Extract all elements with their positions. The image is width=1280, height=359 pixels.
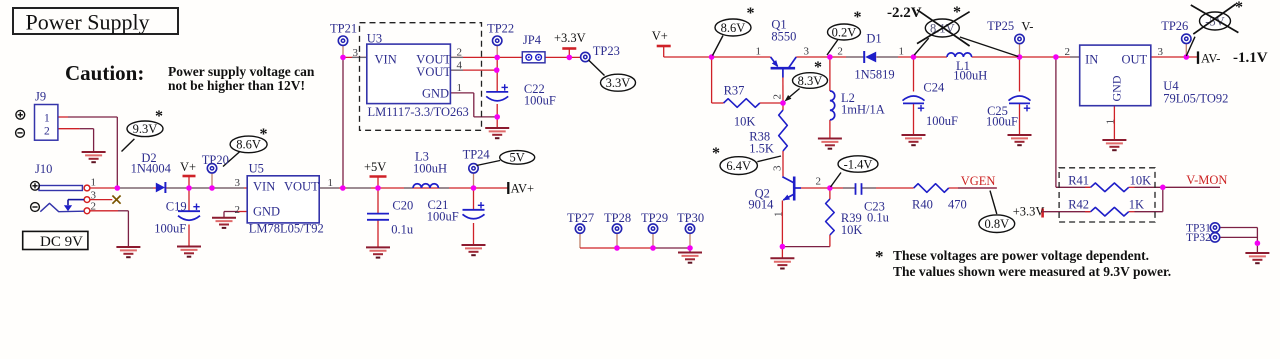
svg-text:TP20: TP20 (202, 153, 229, 167)
svg-text:TP23: TP23 (593, 44, 620, 58)
svg-text:TP32: TP32 (1186, 232, 1211, 244)
svg-text:2: 2 (235, 204, 241, 216)
svg-text:5V: 5V (510, 151, 525, 165)
svg-text:*: * (875, 247, 884, 266)
svg-text:+3.3V: +3.3V (554, 31, 586, 45)
svg-text:J10: J10 (35, 162, 52, 176)
svg-text:IN: IN (1085, 53, 1098, 67)
svg-text:*: * (814, 59, 822, 76)
svg-text:-1.1V: -1.1V (1233, 50, 1268, 66)
svg-text:2: 2 (457, 47, 463, 59)
svg-text:TP27: TP27 (567, 211, 594, 225)
svg-text:2: 2 (837, 46, 843, 58)
svg-text:1: 1 (457, 82, 463, 94)
svg-text:1K: 1K (1129, 198, 1144, 212)
svg-text:LM1117-3.3/TO263: LM1117-3.3/TO263 (368, 105, 469, 119)
svg-text:VGEN: VGEN (961, 174, 996, 188)
svg-text:R41: R41 (1068, 173, 1089, 187)
svg-text:OUT: OUT (1122, 53, 1148, 67)
svg-text:*: * (712, 145, 720, 162)
svg-text:LM78L05/T92: LM78L05/T92 (249, 222, 324, 236)
svg-text:1.5K: 1.5K (749, 142, 774, 156)
svg-text:VIN: VIN (375, 52, 397, 66)
svg-text:100uF: 100uF (926, 114, 958, 128)
svg-text:V+: V+ (652, 29, 668, 43)
svg-text:DC 9V: DC 9V (40, 234, 83, 250)
svg-text:1: 1 (899, 46, 905, 58)
svg-text:1: 1 (773, 212, 785, 218)
svg-text:3: 3 (772, 165, 784, 171)
svg-text:1N5819: 1N5819 (854, 68, 894, 82)
svg-text:*: * (953, 4, 961, 21)
svg-text:+3.3V: +3.3V (1013, 205, 1045, 219)
svg-text:9014: 9014 (748, 198, 774, 212)
svg-text:+5V: +5V (364, 160, 386, 174)
svg-text:100uF: 100uF (427, 210, 459, 224)
svg-text:8.6V: 8.6V (236, 138, 261, 152)
svg-text:10K: 10K (841, 223, 863, 237)
svg-text:470: 470 (948, 198, 967, 212)
svg-text:Power Supply: Power Supply (26, 10, 150, 35)
svg-text:AV-: AV- (1201, 52, 1220, 66)
svg-text:R37: R37 (724, 84, 745, 98)
svg-text:C19: C19 (166, 200, 187, 214)
svg-text:1: 1 (756, 46, 762, 58)
svg-text:2: 2 (44, 126, 50, 138)
svg-text:V-MON: V-MON (1186, 173, 1227, 187)
svg-text:100uH: 100uH (953, 69, 987, 83)
svg-text:1N4004: 1N4004 (131, 162, 172, 176)
svg-text:D1: D1 (866, 31, 881, 45)
svg-text:2: 2 (772, 94, 784, 100)
svg-text:TP26: TP26 (1161, 19, 1188, 33)
svg-text:*: * (747, 5, 755, 22)
svg-text:TP21: TP21 (330, 22, 357, 36)
svg-text:J9: J9 (35, 90, 46, 104)
svg-text:TP28: TP28 (604, 211, 631, 225)
svg-text:100uF: 100uF (986, 115, 1018, 129)
svg-text:*: * (854, 9, 862, 26)
svg-text:0.2V: 0.2V (832, 25, 857, 39)
svg-text:R42: R42 (1068, 198, 1089, 212)
svg-text:GND: GND (253, 205, 280, 219)
svg-text:1: 1 (1105, 119, 1117, 125)
svg-text:79L05/TO92: 79L05/TO92 (1163, 92, 1228, 106)
svg-text:100uF: 100uF (524, 94, 556, 108)
svg-text:1: 1 (44, 113, 50, 125)
svg-text:TP22: TP22 (487, 22, 514, 36)
svg-text:C20: C20 (392, 199, 413, 213)
svg-text:TP30: TP30 (677, 211, 704, 225)
svg-text:-1.4V: -1.4V (844, 157, 873, 171)
svg-text:AV+: AV+ (511, 182, 534, 196)
svg-text:6.4V: 6.4V (726, 159, 751, 173)
svg-text:100uF: 100uF (154, 222, 186, 236)
svg-text:2: 2 (91, 201, 97, 213)
svg-text:9.3V: 9.3V (133, 122, 158, 136)
svg-text:3: 3 (235, 177, 241, 189)
svg-text:V-: V- (1021, 20, 1033, 34)
svg-text:8550: 8550 (771, 30, 796, 44)
svg-text:*: * (155, 108, 163, 125)
svg-text:100uH: 100uH (413, 162, 447, 176)
svg-text:3.3V: 3.3V (606, 76, 631, 90)
svg-text:VIN: VIN (253, 180, 275, 194)
svg-text:0.1u: 0.1u (867, 211, 890, 225)
svg-text:R40: R40 (912, 198, 933, 212)
svg-text:2: 2 (1065, 46, 1071, 58)
svg-text:TP24: TP24 (463, 148, 491, 162)
svg-text:0.1u: 0.1u (391, 223, 414, 237)
svg-text:Power supply voltage can: Power supply voltage can (168, 64, 315, 79)
svg-text:-5V: -5V (1205, 14, 1224, 28)
svg-text:C24: C24 (923, 81, 945, 95)
svg-text:*: * (260, 126, 268, 143)
svg-text:0.8V: 0.8V (984, 217, 1009, 231)
svg-text:10K: 10K (734, 115, 756, 129)
svg-text:8.6V: 8.6V (721, 21, 746, 35)
svg-text:U5: U5 (249, 162, 264, 176)
svg-text:3: 3 (1158, 46, 1164, 58)
svg-text:1mH/1A: 1mH/1A (841, 103, 885, 117)
svg-text:2: 2 (816, 176, 822, 188)
svg-text:3: 3 (804, 46, 810, 58)
svg-text:GND: GND (1110, 75, 1124, 101)
svg-text:-2.2V: -2.2V (887, 5, 922, 21)
svg-text:VOUT: VOUT (284, 180, 319, 194)
svg-text:1: 1 (328, 177, 334, 189)
svg-text:VOUT: VOUT (416, 65, 451, 79)
svg-text:TP29: TP29 (641, 211, 668, 225)
svg-text:not be higher than 12V!: not be higher than 12V! (168, 78, 305, 93)
svg-text:10K: 10K (1130, 173, 1152, 187)
svg-text:3: 3 (353, 47, 359, 59)
svg-text:*: * (1235, 0, 1243, 16)
svg-text:These voltages are power volta: These voltages are power voltage depende… (893, 248, 1149, 263)
svg-text:GND: GND (422, 86, 449, 100)
svg-text:JP4: JP4 (523, 33, 542, 47)
svg-text:The values shown were measured: The values shown were measured at 9.3V p… (893, 264, 1171, 279)
svg-text:TP25: TP25 (987, 19, 1014, 33)
svg-text:4: 4 (457, 60, 463, 72)
svg-text:Caution:: Caution: (65, 61, 144, 85)
svg-text:V+: V+ (180, 160, 196, 174)
svg-text:1: 1 (91, 177, 97, 189)
svg-text:U3: U3 (367, 32, 382, 46)
